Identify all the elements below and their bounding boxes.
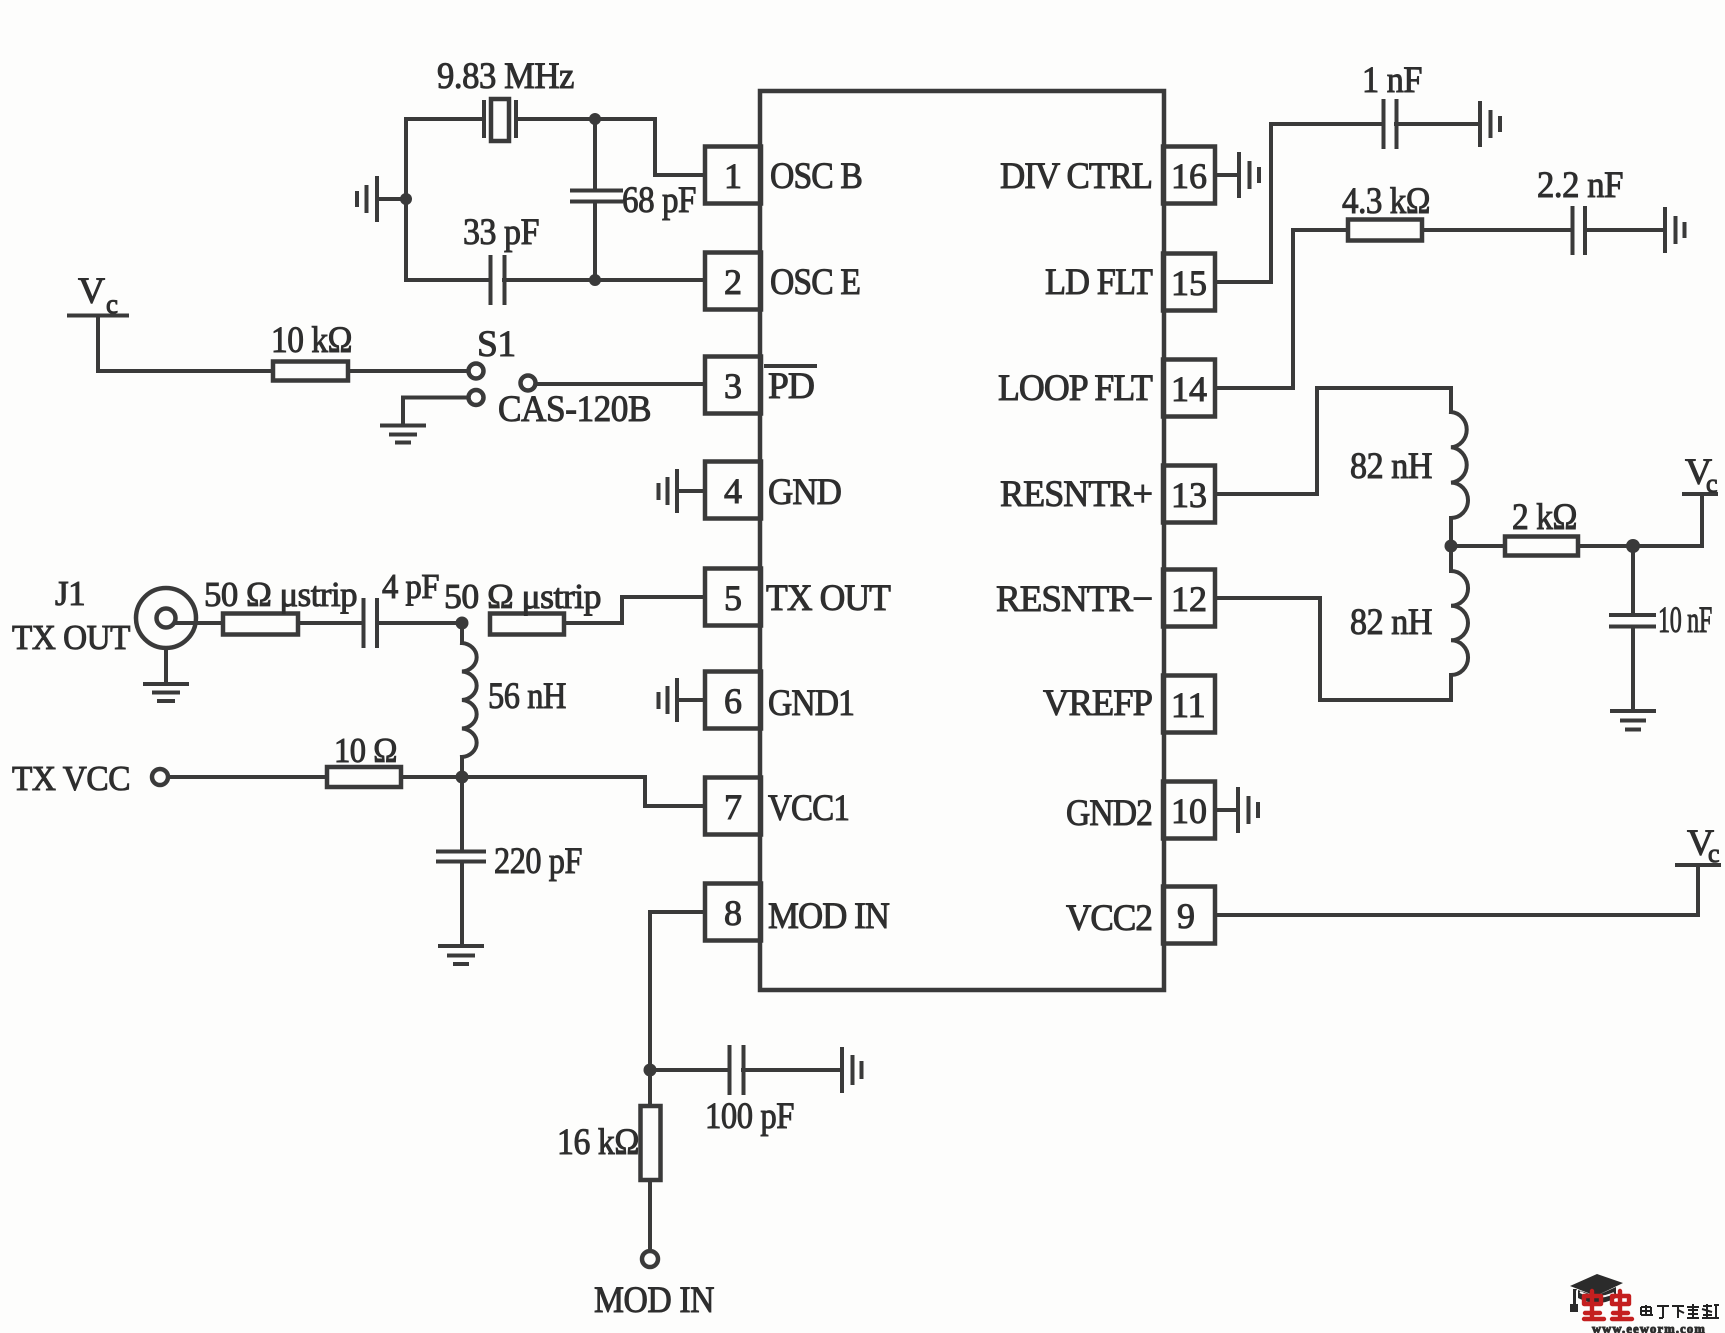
svg-text:5: 5 <box>724 578 742 618</box>
wire (16k to MOD IN terminal) <box>648 1180 652 1251</box>
watermark text dianzi xiazaizhan (black) <box>1641 1304 1719 1318</box>
pin 8 box <box>705 884 761 941</box>
svg-text:220 pF: 220 pF <box>494 841 582 882</box>
capacitor 4 pF <box>364 567 440 646</box>
ground (right of pin 10) <box>1215 789 1258 831</box>
wire (J1 to microstrip) <box>175 621 223 625</box>
pin 5 box <box>705 569 761 626</box>
supply Vc (top left) <box>69 271 127 319</box>
wire (switch lower throw to ground) <box>403 398 469 424</box>
svg-text:c: c <box>1708 839 1720 868</box>
svg-text:GND1: GND1 <box>768 683 854 724</box>
svg-text:4.3 kΩ: 4.3 kΩ <box>1342 181 1430 222</box>
resistor 2 kOhm <box>1505 497 1578 556</box>
node F (MOD IN junction) <box>644 1064 657 1077</box>
wire (pin 9 to Vc) <box>1215 868 1698 915</box>
pin 14 box <box>1163 360 1215 417</box>
ground (left of pin 6) <box>659 680 706 720</box>
wire (left vertical of crystal loop) <box>404 119 408 280</box>
wire (4.3k to 2.2 nF) <box>1422 228 1572 232</box>
svg-text:RESNTR−: RESNTR− <box>996 579 1152 620</box>
svg-text:LOOP FLT: LOOP FLT <box>998 368 1153 409</box>
crystal Y1 9.83 MHz <box>437 56 574 141</box>
pin label PD (active low) <box>766 366 815 407</box>
svg-text:MOD IN: MOD IN <box>768 896 890 937</box>
svg-text:LD FLT: LD FLT <box>1045 262 1153 303</box>
wire (pin 13 to top inductor) <box>1215 388 1451 494</box>
pin 3 box <box>705 357 761 414</box>
wire (4pF to node D) <box>377 621 462 625</box>
node A (crystal-left junction) <box>400 193 412 205</box>
ground (right of 1 nF) <box>1480 103 1500 145</box>
wire (TX VCC to resistor) <box>168 775 327 779</box>
svg-text:9: 9 <box>1177 896 1195 936</box>
svg-text:8: 8 <box>724 893 742 933</box>
ground (below 10 nF) <box>1612 711 1654 730</box>
resistor 50 Ohm microstrip (right) <box>444 577 601 635</box>
ground (below 220 pF) <box>440 946 482 964</box>
svg-text:2 kΩ: 2 kΩ <box>1512 497 1577 538</box>
wire (switch common to pin 3) <box>536 382 705 386</box>
resistor 10 Ohm <box>327 731 401 787</box>
capacitor 2.2 nF <box>1537 165 1623 253</box>
node D (TX junction) <box>456 617 469 630</box>
wire (1 nF to ground) <box>1396 122 1478 126</box>
watermark text chongchong (red) <box>1584 1291 1632 1319</box>
svg-text:MOD IN: MOD IN <box>594 1280 714 1321</box>
ground (right of 2.2 nF) <box>1665 209 1685 251</box>
pin 11 box <box>1163 676 1215 733</box>
supply Vc (bottom right) <box>1677 823 1720 868</box>
svg-text:1 nF: 1 nF <box>1362 60 1422 101</box>
wire (pin 12 to bottom inductor) <box>1215 598 1451 700</box>
IC body U1 <box>760 91 1164 990</box>
svg-text:100 pF: 100 pF <box>705 1096 794 1137</box>
node B (crystal-right junction) <box>589 113 601 125</box>
svg-text:c: c <box>1706 469 1718 498</box>
wire (microstrip to 4pF) <box>298 621 363 625</box>
wire (node E to pin 7) <box>462 777 705 806</box>
resistor 50 Ohm microstrip (left) <box>204 575 357 635</box>
ground (below switch S1) <box>382 426 424 443</box>
supply Vc (middle right) <box>1684 452 1718 546</box>
pin 6 box <box>705 672 761 729</box>
svg-text:VREFP: VREFP <box>1043 683 1152 724</box>
svg-text:50 Ω μstrip: 50 Ω μstrip <box>204 575 357 614</box>
svg-text:10 Ω: 10 Ω <box>334 731 397 770</box>
wire (J1 to ground) <box>164 648 168 683</box>
svg-text:S1: S1 <box>477 324 516 365</box>
svg-text:10 kΩ: 10 kΩ <box>271 320 352 361</box>
svg-text:3: 3 <box>724 366 742 406</box>
wire (crystal to node B) <box>516 117 595 121</box>
node G (resonator center tap) <box>1445 540 1458 553</box>
wire (resistor to node E) <box>401 775 462 779</box>
svg-text:4: 4 <box>724 471 742 511</box>
wire (2.2 nF to ground) <box>1585 228 1663 232</box>
inductor 82 nH (bottom) <box>1350 546 1468 700</box>
pin 13 box <box>1163 466 1215 523</box>
svg-text:TX VCC: TX VCC <box>12 759 130 798</box>
svg-text:14: 14 <box>1171 369 1207 409</box>
resistor 4.3 kOhm <box>1342 181 1430 241</box>
svg-text:PD: PD <box>768 366 814 407</box>
pin 4 box <box>705 462 761 519</box>
node E (TX VCC junction) <box>456 771 469 784</box>
node H (10 nF junction) <box>1626 539 1640 553</box>
svg-text:V: V <box>78 271 105 312</box>
svg-text:2.2 nF: 2.2 nF <box>1537 165 1623 206</box>
wire (microstrip to pin 5) <box>564 597 705 623</box>
node C (33pF/68pF junction) <box>589 274 601 286</box>
watermark logo graduation cap <box>1570 1274 1623 1312</box>
pin 16 box <box>1163 147 1215 204</box>
svg-text:OSC E: OSC E <box>770 262 860 303</box>
svg-text:12: 12 <box>1171 579 1207 619</box>
svg-text:RESNTR+: RESNTR+ <box>1000 474 1152 515</box>
wire (100 pF to ground) <box>743 1068 840 1072</box>
svg-text:50 Ω μstrip: 50 Ω μstrip <box>444 577 601 616</box>
wire (node G to 2 kOhm) <box>1451 544 1505 548</box>
wire (2 kOhm to Vc corner) <box>1578 544 1702 548</box>
wire (Vc to resistor) <box>98 316 273 372</box>
terminal TX VCC <box>12 759 168 798</box>
wire (resistor to switch) <box>348 369 468 373</box>
ground (right of pin 16) <box>1215 154 1259 196</box>
svg-text:68 pF: 68 pF <box>622 180 696 221</box>
resistor R1 10 kOhm <box>271 320 352 381</box>
svg-text:7: 7 <box>724 787 742 827</box>
svg-text:9.83 MHz: 9.83 MHz <box>437 56 574 97</box>
pin 2 box <box>705 253 761 310</box>
ground (right of 100 pF) <box>842 1049 862 1091</box>
pin 10 box <box>1163 782 1215 839</box>
switch S1 CAS-120B <box>469 324 652 430</box>
svg-text:82 nH: 82 nH <box>1350 446 1432 487</box>
svg-text:VCC1: VCC1 <box>768 788 849 829</box>
svg-text:GND2: GND2 <box>1066 793 1152 834</box>
svg-text:OSC B: OSC B <box>770 156 862 197</box>
resistor 16 kOhm <box>557 1070 661 1180</box>
wire (to crystal) <box>406 117 484 121</box>
svg-text:GND: GND <box>768 472 841 513</box>
pin 9 box <box>1163 887 1215 944</box>
svg-text:56 nH: 56 nH <box>488 676 566 717</box>
pin 15 box <box>1163 254 1215 311</box>
wire (pin 8 to node F) <box>650 912 705 1070</box>
svg-text:VCC2: VCC2 <box>1066 898 1152 939</box>
svg-text:www.eeworm.com: www.eeworm.com <box>1592 1322 1706 1333</box>
inductor L1 56 nH <box>462 623 566 777</box>
wire (pin 14 to 4.3 kOhm) <box>1215 230 1348 388</box>
svg-text:11: 11 <box>1171 685 1206 725</box>
terminal MOD IN <box>594 1251 714 1321</box>
svg-text:6: 6 <box>724 681 742 721</box>
svg-text:1: 1 <box>724 156 742 196</box>
ground (below J1) <box>145 684 187 701</box>
ground (left of crystal loop) <box>357 178 406 220</box>
capacitor 100 pF <box>650 1047 794 1137</box>
svg-text:4 pF: 4 pF <box>382 567 439 606</box>
svg-text:DIV CTRL: DIV CTRL <box>1000 156 1152 197</box>
pin 12 box <box>1163 570 1215 627</box>
capacitor 220 pF <box>438 777 582 944</box>
svg-text:16: 16 <box>1171 156 1207 196</box>
svg-text:15: 15 <box>1171 263 1207 303</box>
svg-text:33 pF: 33 pF <box>463 212 539 253</box>
svg-text:CAS-120B: CAS-120B <box>498 389 651 430</box>
capacitor 1 nF <box>1362 60 1422 147</box>
svg-text:13: 13 <box>1171 475 1207 515</box>
svg-text:10: 10 <box>1171 791 1207 831</box>
svg-text:16 kΩ: 16 kΩ <box>557 1122 639 1163</box>
capacitor 10 nF <box>1611 546 1712 709</box>
svg-text:10 nF: 10 nF <box>1658 600 1712 641</box>
wire (pin 15 to 1 nF) <box>1215 124 1383 282</box>
wire (node C to pin 2) <box>504 278 705 282</box>
pin 7 box <box>705 778 761 835</box>
wire (node B to pin 1) <box>595 119 705 175</box>
svg-text:TX OUT: TX OUT <box>766 578 891 619</box>
ground (left of pin 4) <box>659 471 706 511</box>
svg-text:TX OUT: TX OUT <box>12 618 130 657</box>
capacitor 33 pF <box>406 212 539 303</box>
svg-text:82 nH: 82 nH <box>1350 602 1432 643</box>
inductor 82 nH (top) <box>1350 388 1468 546</box>
svg-text:2: 2 <box>724 262 742 302</box>
capacitor 68 pF <box>572 119 696 280</box>
pin 1 box <box>705 147 761 204</box>
connector J1 TX OUT (BNC) <box>12 574 196 657</box>
svg-text:J1: J1 <box>55 574 85 613</box>
